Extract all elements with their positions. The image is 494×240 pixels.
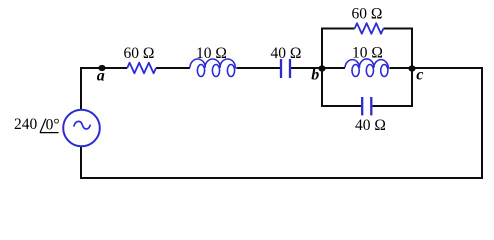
svg-text:a: a [97,68,105,85]
svg-text:10 Ω: 10 Ω [352,45,383,62]
wire [291,67,322,69]
wire right vertical [481,68,483,179]
inductor 10ohm parallel branch [345,60,360,68]
wire middle branch right [390,67,412,69]
ac source 240/0 [63,110,100,147]
capacitor C 40ohm series [280,59,282,78]
wire top branch left [321,28,355,30]
svg-text:40 Ω: 40 Ω [271,45,302,62]
svg-text:60 Ω: 60 Ω [124,45,155,62]
wire bottom branch right [372,105,413,107]
wire middle branch left [322,67,345,69]
wire bottom branch left [321,105,361,107]
wire top branch right [383,28,413,30]
wire left vertical bottom [80,147,82,179]
wire parallel box left vertical [321,29,323,107]
svg-text:0°: 0° [46,116,60,133]
node a [98,65,105,71]
resistor 60ohm parallel branch [355,23,384,34]
svg-text:10 Ω: 10 Ω [196,45,227,62]
wire parallel box right vertical [411,29,413,107]
resistor R 60ohm series [127,63,156,74]
svg-text:60 Ω: 60 Ω [352,6,383,23]
node c [408,65,415,71]
wire c to right edge [412,67,483,69]
wire [237,67,280,69]
wire [156,67,190,69]
node b [318,65,325,71]
svg-text:40 Ω: 40 Ω [355,117,386,134]
wire top a-segment [80,67,127,69]
wire bottom [80,177,483,179]
inductor L 10ohm series [190,59,205,68]
svg-text:b: b [311,66,319,83]
svg-text:240: 240 [14,116,38,133]
svg-text:c: c [416,67,423,84]
capacitor 40ohm parallel branch [361,97,363,115]
wire left vertical top [80,68,82,110]
